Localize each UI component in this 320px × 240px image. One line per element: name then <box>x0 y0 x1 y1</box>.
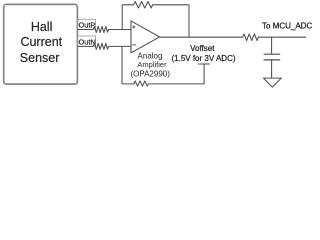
label Hall Current Senser <box>20 20 63 65</box>
wire feedback left vertical <box>121 5 123 30</box>
node OutN label box <box>77 36 95 46</box>
wire OutP with resistor R1 <box>77 26 131 32</box>
wire capacitor to ground <box>271 60 273 78</box>
wire op-amp output to MCU with resistor R4 <box>160 34 306 41</box>
label Analog Amplifier (OPA2990) <box>130 51 170 78</box>
wire feedback right vertical <box>188 5 190 37</box>
svg-text:Current: Current <box>20 35 62 49</box>
ground <box>263 78 281 87</box>
label Voffset (1.5V for 3V ADC) <box>171 44 235 63</box>
wire Voffset vertical <box>203 64 205 84</box>
feedback resistor R3 with top wire <box>122 2 189 9</box>
wire OutN with resistor R2 <box>77 43 131 49</box>
node OutP label box <box>77 19 95 29</box>
offset resistor R5 with bottom wire <box>122 81 204 86</box>
svg-text:Senser: Senser <box>20 51 60 65</box>
svg-text:Analog: Analog <box>138 51 163 60</box>
capacitor C1 <box>264 53 281 55</box>
wire inverting input down to offset path <box>121 46 123 84</box>
svg-text:(1.5V for 3V ADC): (1.5V for 3V ADC) <box>171 54 235 63</box>
op-amp - input mark <box>132 44 136 46</box>
svg-text:Hall: Hall <box>31 20 53 34</box>
svg-text:OutP: OutP <box>79 21 96 30</box>
hall current sensor block U2 <box>4 4 78 84</box>
op-amp + input mark <box>132 25 135 28</box>
svg-text:Voffset: Voffset <box>190 44 215 53</box>
Voffset terminal bar <box>198 63 210 65</box>
svg-text:Amplifier: Amplifier <box>137 60 167 69</box>
svg-text:(OPA2990): (OPA2990) <box>130 69 170 78</box>
op-amp U1 (OPA2990) <box>131 21 160 53</box>
svg-text:To MCU_ADC: To MCU_ADC <box>262 22 312 31</box>
wire output node down to capacitor C1 <box>271 37 273 54</box>
